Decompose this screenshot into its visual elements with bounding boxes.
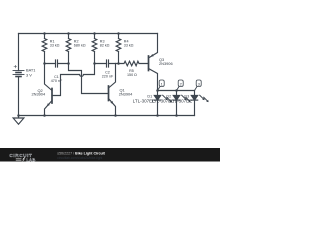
svg-text:150 Ω: 150 Ω <box>127 73 137 77</box>
transistor Q1 2N3904 <box>109 64 116 116</box>
wire R3 bottom to Q2 base (cross-coupling, hops over the other) <box>52 64 95 96</box>
transistor Q3 2N3906 (PNP) <box>149 34 158 91</box>
node Q1 emitter ground <box>114 114 117 117</box>
footer text <box>57 151 105 160</box>
ground <box>13 116 24 125</box>
footer logo CIRCUIT LAB <box>9 153 36 162</box>
node C1 left / R1 bottom <box>43 62 46 65</box>
label R3 82 kohm <box>100 39 110 47</box>
label R2 680 kohm <box>74 39 86 47</box>
capacitor C1 470nF <box>45 60 69 67</box>
wire battery negative to ground rail <box>18 77 20 116</box>
label C2 220 nF <box>102 71 114 79</box>
svg-text:470 nF: 470 nF <box>51 79 63 83</box>
resistor R1 33 kohm <box>44 34 46 39</box>
footer bar <box>0 148 220 162</box>
svg-text:220 nF: 220 nF <box>102 75 114 79</box>
net flag 2 <box>177 80 184 91</box>
node R3 top rail <box>93 32 96 35</box>
label Q1 2N3904 <box>119 88 133 97</box>
label R4 33 kohm <box>124 39 134 47</box>
label D3 LTL-307EE <box>170 94 192 103</box>
svg-text:82 kΩ: 82 kΩ <box>100 43 110 47</box>
label R5 150 Ohm <box>127 69 137 77</box>
node C2 left / R3 bottom <box>93 62 96 65</box>
label R1 33 kohm <box>50 39 60 47</box>
svg-text:33 kΩ: 33 kΩ <box>124 43 134 47</box>
battery BAT1 <box>13 65 24 76</box>
svg-text:2N3906: 2N3906 <box>159 61 173 66</box>
label BAT1 3 V <box>26 67 35 77</box>
node LED bus / Q3 collector <box>156 89 159 92</box>
net flag 3 <box>195 80 202 91</box>
svg-text:s5tb2227 / Bike Light Circuit: s5tb2227 / Bike Light Circuit <box>57 151 105 155</box>
resistor R2 680 kohm <box>68 34 70 39</box>
resistor R4 33 kohm <box>118 34 120 39</box>
node D1 cathode ground <box>156 114 159 117</box>
node D2 cathode ground <box>175 114 178 117</box>
node R2 top rail <box>67 32 70 35</box>
LED D1 LTL-307EE <box>154 91 171 116</box>
transistor Q2 2N3904 <box>45 64 53 116</box>
node C1 right / R2 bottom <box>67 62 70 65</box>
wire ground rail <box>19 115 195 117</box>
svg-text:2N3904: 2N3904 <box>119 91 133 96</box>
net flag 1 <box>158 80 165 91</box>
svg-text:680 kΩ: 680 kΩ <box>74 43 86 47</box>
svg-text:3 V: 3 V <box>26 72 32 77</box>
svg-text:33 kΩ: 33 kΩ <box>50 43 60 47</box>
wire LED anode bus <box>158 90 195 92</box>
svg-text:2N3904: 2N3904 <box>32 92 46 97</box>
node R4 top rail <box>117 32 120 35</box>
label C1 470 nF <box>51 75 63 83</box>
svg-text:LTL-307EE: LTL-307EE <box>170 99 192 104</box>
resistor R3 82 kohm <box>94 34 96 39</box>
node R1 top rail <box>43 32 46 35</box>
wire top supply rail <box>19 33 158 35</box>
node C2 right / R4 bottom <box>117 62 120 65</box>
svg-text:circuitlab.com/c/abc2c/bike-li: circuitlab.com/c/abc2c/bike-light <box>57 156 102 160</box>
label D2 LTL-307EE <box>152 94 174 103</box>
node Q2 emitter ground <box>43 114 46 117</box>
wire R2 bottom to Q1 base (cross-coupling) <box>69 64 109 94</box>
capacitor C2 220nF <box>95 60 119 67</box>
LED D2 LTL-307EE <box>173 91 190 116</box>
wire battery positive lead <box>18 34 20 71</box>
label Q3 2N3906 <box>159 57 173 66</box>
node battery/ground junction <box>17 114 20 117</box>
resistor R5 150 ohm (horizontal) <box>119 61 149 66</box>
svg-text:LAB: LAB <box>26 157 36 162</box>
label Q2 2N3904 <box>32 88 46 97</box>
LED D3 LTL-307EE <box>191 91 208 116</box>
label D1 LTL-307EE <box>133 94 155 103</box>
node LED bus D2 branch <box>175 89 178 92</box>
